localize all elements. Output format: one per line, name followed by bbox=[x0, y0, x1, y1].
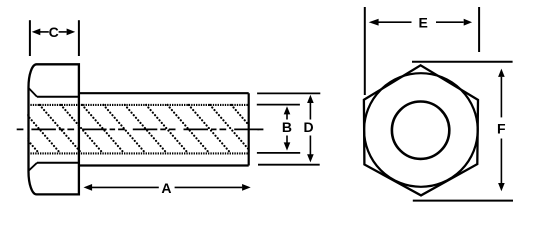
centerline of bolt (dash-dot) bbox=[17, 128, 259, 130]
bolt head outline (side view) bbox=[28, 64, 78, 194]
head chamfer circle bbox=[364, 73, 478, 187]
dim D extension line bottom bbox=[258, 164, 320, 166]
shank end edge bbox=[248, 93, 250, 165]
dim F line bottom segment bbox=[500, 139, 502, 184]
shank top edge bbox=[79, 92, 249, 94]
dim A left arrowhead bbox=[84, 184, 93, 191]
head lower chamfer diagonal bbox=[29, 163, 37, 171]
dim D extension line top bbox=[257, 92, 320, 94]
hex head outline (end view) bbox=[364, 65, 478, 195]
dim D bottom arrow bbox=[307, 154, 314, 162]
head upper chamfer diagonal bbox=[29, 88, 37, 97]
dim C line right segment bbox=[59, 31, 67, 33]
dim F extension line bottom bbox=[413, 200, 513, 202]
dim A right arrowhead bbox=[242, 184, 251, 191]
dim E right arrowhead bbox=[464, 19, 472, 26]
dim E line left segment bbox=[379, 21, 412, 23]
dim B top arrow bbox=[284, 106, 291, 114]
dim C extension line right bbox=[78, 20, 80, 56]
dim F top arrowhead bbox=[498, 69, 505, 77]
dim A line right segment bbox=[175, 186, 243, 188]
shank circle bbox=[392, 102, 449, 159]
dim E line right segment bbox=[436, 21, 464, 23]
dim C extension line left bbox=[29, 20, 31, 56]
dim B extension line bottom bbox=[257, 152, 300, 154]
dim D top arrow bbox=[307, 95, 314, 103]
dim C left arrowhead bbox=[32, 29, 41, 36]
svg-text:A: A bbox=[161, 180, 171, 196]
svg-text:C: C bbox=[49, 24, 59, 40]
thread crest dotted line top bbox=[28, 104, 249, 106]
head upper face line bbox=[37, 96, 79, 98]
dim B extension line top bbox=[257, 104, 300, 106]
svg-text:D: D bbox=[304, 119, 314, 135]
thread hatch (dotted diagonals) bbox=[0, 105, 274, 153]
svg-text:E: E bbox=[419, 14, 428, 30]
dim C line left segment bbox=[40, 31, 49, 33]
dim E extension line left bbox=[364, 7, 366, 95]
head lower face line bbox=[37, 162, 79, 164]
dim B bottom arrow bbox=[284, 142, 291, 150]
centerline end dash bbox=[258, 128, 264, 130]
dim A line left segment bbox=[92, 186, 159, 188]
shank bottom edge bbox=[79, 164, 249, 166]
dim E left arrowhead bbox=[369, 19, 379, 26]
svg-text:F: F bbox=[497, 121, 506, 137]
dim F extension line top bbox=[412, 61, 513, 63]
thread crest dotted line bottom bbox=[28, 152, 249, 154]
svg-text:B: B bbox=[282, 119, 292, 135]
dim F bottom arrowhead bbox=[498, 183, 505, 191]
dim E extension line right bbox=[478, 7, 480, 52]
dim F line top segment bbox=[500, 77, 502, 118]
dim C right arrowhead bbox=[67, 29, 76, 36]
